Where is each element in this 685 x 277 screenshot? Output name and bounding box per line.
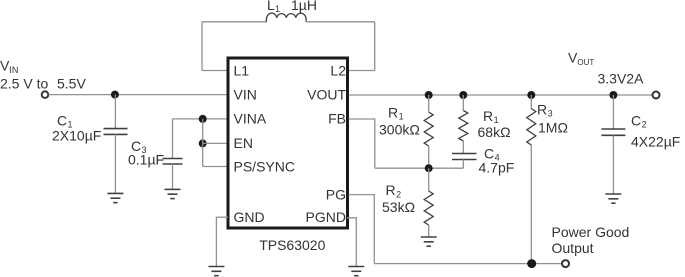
svg-text:VOUT: VOUT	[307, 86, 346, 102]
svg-text:L: L	[267, 0, 275, 13]
wire FB stub	[349, 119, 375, 168]
value label C2	[631, 112, 647, 129]
wire PG stub	[349, 195, 375, 264]
svg-text:C: C	[631, 112, 641, 128]
wire R1 300k lead bottom	[428, 146, 430, 168]
wire R2 lead bottom	[428, 225, 430, 237]
wire C1 lead bottom	[114, 134, 116, 193]
value label R3	[537, 101, 553, 118]
wire L2 right vertical	[374, 22, 376, 71]
svg-text:0.1µF: 0.1µF	[128, 151, 164, 167]
resistor R1 300k	[424, 112, 433, 146]
ground GND pin	[208, 267, 224, 276]
wire C2 lead bottom	[612, 135, 614, 194]
wire VIN input to IC	[49, 94, 228, 96]
wire EN stub	[203, 142, 227, 144]
svg-text:C: C	[57, 112, 67, 128]
svg-text:PGND: PGND	[306, 209, 346, 225]
wire R3 lead top	[530, 95, 532, 109]
node VOUT output terminal	[653, 92, 660, 99]
svg-text:TPS63020: TPS63020	[259, 237, 325, 253]
value label L1 1uH	[267, 0, 317, 14]
wire L2 stub	[349, 70, 375, 72]
svg-text:3.3V2A: 3.3V2A	[598, 70, 645, 86]
junction R3 top	[527, 91, 535, 99]
svg-text:L2: L2	[330, 62, 346, 78]
node power good terminal	[562, 260, 569, 267]
junction EN	[199, 139, 207, 147]
value label C4	[484, 145, 500, 162]
svg-text:IN: IN	[9, 65, 18, 75]
wire VINA stub	[173, 118, 228, 120]
svg-text:300kΩ: 300kΩ	[379, 121, 420, 137]
value label R2	[386, 182, 402, 199]
node VIN label	[0, 58, 18, 76]
capacitor C4	[452, 154, 477, 160]
wire L1 left stub	[202, 70, 227, 72]
svg-text:VIN: VIN	[234, 86, 257, 102]
node VIN input terminal	[42, 91, 49, 98]
svg-text:R: R	[537, 101, 547, 117]
wire VOUT net	[349, 94, 652, 96]
svg-text:GND: GND	[234, 209, 265, 225]
wire GND vertical	[215, 217, 217, 266]
wire R1 68k lead top	[462, 95, 464, 111]
junction VINA	[199, 115, 207, 123]
junction C2 top	[609, 91, 617, 99]
wire C4 lead bottom	[462, 160, 464, 169]
value label C1	[57, 112, 73, 129]
svg-text:VINA: VINA	[234, 111, 267, 127]
wire R1 300k lead top	[428, 95, 430, 112]
svg-text:R: R	[388, 104, 398, 120]
ground C3	[165, 189, 181, 198]
svg-text:PG: PG	[326, 186, 346, 202]
value label R1	[388, 104, 404, 121]
junction VIN/C1	[111, 91, 119, 99]
svg-text:5.5V: 5.5V	[57, 75, 86, 91]
svg-text:1: 1	[399, 112, 404, 122]
svg-text:FB: FB	[328, 111, 346, 127]
junction PG/R3	[527, 259, 536, 268]
junction FB node	[425, 164, 433, 172]
svg-text:1MΩ: 1MΩ	[538, 119, 568, 135]
wire VINA to PS/SYNC vertical	[202, 119, 204, 167]
svg-text:3: 3	[548, 109, 553, 119]
wire C1 lead top	[114, 95, 116, 129]
ground PGND pin	[348, 267, 364, 276]
wire L1 left vertical	[201, 22, 203, 71]
svg-text:R: R	[386, 182, 396, 198]
svg-text:2X10µF: 2X10µF	[52, 127, 101, 143]
wire C3 lead top	[172, 119, 174, 159]
wire R1 68k to C4	[462, 141, 464, 154]
wire PS/SYNC stub	[203, 166, 227, 168]
svg-text:68kΩ: 68kΩ	[478, 124, 511, 140]
op-amp U1 TPS63020 body	[228, 58, 348, 228]
wire PGND stub	[347, 218, 356, 267]
resistor R2	[424, 191, 433, 225]
capacitor C1	[104, 129, 128, 135]
capacitor C2	[601, 129, 625, 135]
wire power good net	[374, 263, 561, 265]
svg-text:1µH: 1µH	[291, 0, 317, 13]
ground C2	[605, 194, 621, 203]
svg-text:OUT: OUT	[577, 58, 594, 67]
svg-text:Output: Output	[552, 240, 594, 256]
svg-text:Power Good: Power Good	[552, 224, 630, 240]
wire inductor top right	[306, 21, 375, 23]
value label R1 68k designator	[483, 108, 499, 125]
svg-text:1: 1	[275, 4, 280, 14]
junction R1 68k top	[459, 91, 467, 99]
wire C3 lead bottom	[172, 164, 174, 189]
resistor R3	[527, 109, 536, 146]
wire C2 lead top	[612, 95, 614, 129]
junction R1 300k top	[425, 91, 433, 99]
svg-text:EN: EN	[234, 135, 253, 151]
svg-text:L1: L1	[234, 62, 250, 78]
inductor L1	[266, 13, 306, 22]
svg-text:4.7pF: 4.7pF	[479, 159, 515, 175]
svg-text:53kΩ: 53kΩ	[382, 199, 415, 215]
wire R2 lead top	[428, 168, 430, 191]
svg-text:4X22µF: 4X22µF	[631, 133, 680, 149]
wire inductor top left	[202, 21, 267, 23]
wire GND stub	[216, 216, 228, 218]
wire FB node horizontal	[375, 167, 464, 169]
ground R2	[421, 237, 437, 246]
svg-text:2.5 V to: 2.5 V to	[0, 75, 48, 91]
resistor R1 68k	[459, 111, 468, 142]
value label C3	[131, 138, 147, 155]
ground C1	[107, 193, 123, 202]
capacitor C3	[163, 159, 183, 165]
svg-text:R: R	[483, 108, 493, 124]
svg-text:2: 2	[642, 120, 647, 130]
wire R3 lead bottom	[530, 145, 532, 264]
node VOUT label	[568, 49, 594, 66]
svg-text:PS/SYNC: PS/SYNC	[234, 158, 295, 174]
